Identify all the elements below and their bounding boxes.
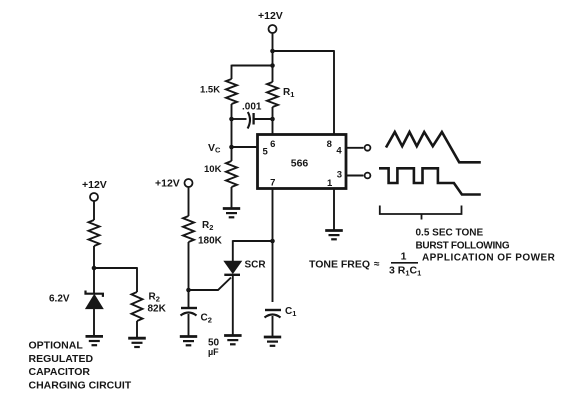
wire (233, 240, 273, 242)
node junction (270, 63, 275, 68)
node junction (229, 117, 234, 122)
wire SCR gate (189, 278, 231, 291)
ground (264, 337, 281, 346)
resistor R2 180K (183, 216, 194, 242)
svg-text:VC: VC (208, 142, 221, 155)
svg-text:1: 1 (401, 251, 407, 263)
ground (223, 209, 240, 218)
svg-text:BURST FOLLOWING: BURST FOLLOWING (416, 241, 510, 252)
wire (347, 175, 364, 177)
svg-text:6.2V: 6.2V (49, 294, 70, 305)
svg-text:SCR: SCR (245, 260, 267, 271)
resistor 1.5K (226, 79, 237, 104)
svg-text:82K: 82K (148, 304, 167, 315)
wire (347, 147, 364, 149)
svg-text:+12V: +12V (155, 178, 180, 190)
svg-text:C1: C1 (285, 306, 296, 318)
node junction (270, 117, 275, 122)
svg-text:1.5K: 1.5K (200, 85, 220, 96)
svg-text:R2: R2 (149, 292, 160, 304)
resistor (charging) (89, 220, 100, 246)
svg-text:OPTIONAL: OPTIONAL (29, 340, 84, 352)
svg-text:4: 4 (336, 146, 342, 157)
svg-text:.001: .001 (242, 102, 262, 113)
ground (128, 338, 146, 347)
wire (232, 65, 273, 67)
wire (136, 267, 138, 292)
wire (272, 33, 274, 66)
wire (188, 314, 190, 336)
wire (333, 189, 335, 230)
wire (231, 65, 233, 79)
output terminal pin 4 (365, 145, 371, 151)
zener diode 6.2V (86, 291, 103, 297)
svg-text:R2: R2 (202, 220, 213, 232)
wire (232, 275, 234, 335)
wire (94, 267, 137, 269)
resistor R2 82K (132, 292, 143, 321)
svg-text:3: 3 (337, 170, 342, 181)
ground (224, 336, 242, 345)
wire (188, 187, 190, 216)
wire (188, 242, 190, 308)
wire (136, 321, 138, 338)
svg-text:C2: C2 (201, 313, 212, 325)
svg-text:566: 566 (291, 158, 309, 170)
ground (180, 337, 197, 346)
svg-text:5: 5 (263, 147, 269, 158)
svg-text:+12V: +12V (82, 179, 107, 191)
svg-text:CHARGING CIRCUIT: CHARGING CIRCUIT (29, 379, 132, 391)
waveform square output (379, 168, 481, 194)
node junction (92, 266, 97, 271)
svg-text:APPLICATION OF POWER: APPLICATION OF POWER (422, 253, 556, 264)
op-amp U1 566 VCO (258, 135, 347, 189)
node Vc (229, 145, 234, 150)
wire (272, 66, 274, 83)
node junction (270, 239, 275, 244)
thyristor SCR (224, 261, 241, 273)
wire (231, 187, 233, 208)
svg-text:TONE FREQ: TONE FREQ (309, 259, 370, 271)
wire (232, 240, 234, 261)
wire (272, 316, 274, 337)
power terminal +12V (left) (90, 193, 98, 201)
svg-text:6: 6 (270, 139, 275, 150)
wire (272, 189, 274, 302)
brace 0.5 sec (380, 206, 462, 215)
wire (333, 50, 335, 135)
capacitor C1 (265, 309, 281, 311)
svg-text:1: 1 (327, 178, 333, 189)
svg-text:0.5 SEC TONE: 0.5 SEC TONE (416, 228, 484, 239)
node junction (186, 288, 191, 293)
output terminal pin 3 (365, 173, 371, 179)
svg-text:3 R1C1: 3 R1C1 (389, 265, 421, 278)
wire (255, 118, 273, 120)
svg-text:8: 8 (327, 139, 332, 150)
power terminal +12V (top) (269, 25, 277, 33)
ground (325, 231, 343, 240)
resistor 10K (226, 161, 237, 187)
svg-text:REGULATED: REGULATED (29, 353, 94, 365)
wire (93, 309, 95, 336)
wire (232, 146, 258, 148)
svg-text:µF: µF (208, 347, 219, 357)
wire (93, 246, 95, 294)
wire (273, 50, 335, 52)
svg-text:+12V: +12V (258, 10, 283, 22)
power terminal +12V (middle) (185, 179, 193, 187)
svg-text:180K: 180K (198, 236, 223, 247)
capacitor .001 (252, 113, 254, 125)
waveform triangle output (386, 132, 481, 162)
wire (93, 201, 95, 220)
wire (232, 118, 247, 120)
ground (86, 336, 104, 345)
svg-text:10K: 10K (204, 164, 222, 175)
resistor R1 (267, 82, 278, 107)
node junction (270, 49, 275, 54)
wire (272, 107, 274, 135)
svg-text:CAPACITOR: CAPACITOR (29, 366, 91, 378)
svg-text:7: 7 (270, 178, 275, 189)
wire (231, 104, 233, 161)
capacitor C2 (181, 307, 197, 309)
svg-text:R1: R1 (283, 87, 294, 99)
svg-text:≈: ≈ (374, 259, 380, 270)
